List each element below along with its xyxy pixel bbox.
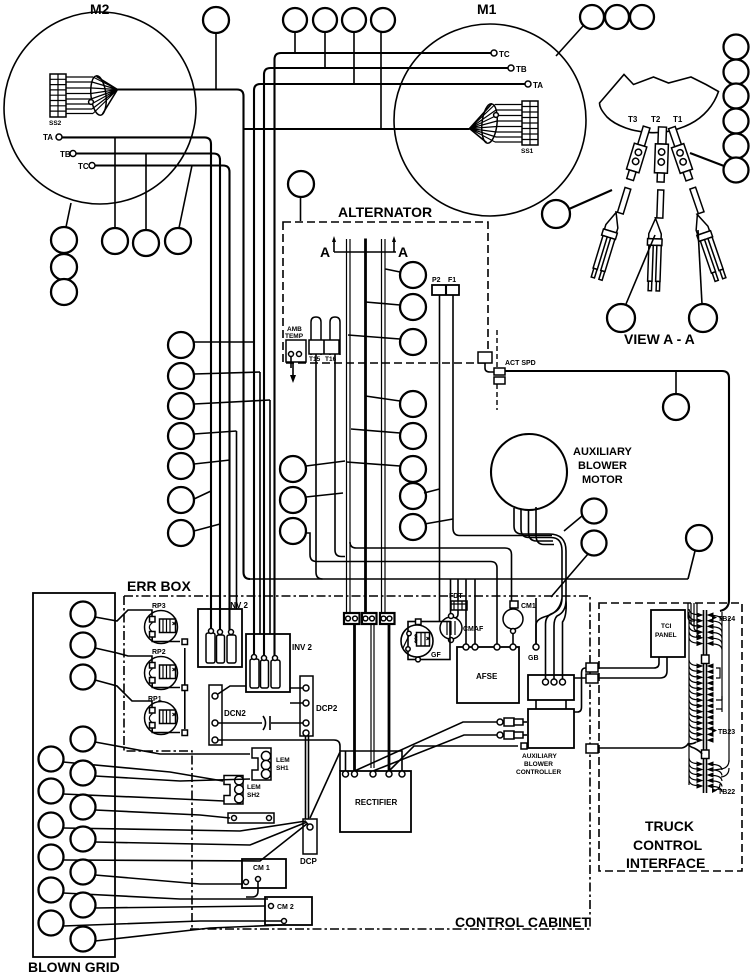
- right column callout circles: [724, 35, 749, 60]
- svg-text:TB24: TB24: [718, 616, 735, 623]
- LEM SH1: [252, 748, 290, 780]
- svg-text:T2: T2: [651, 115, 661, 124]
- wire stem: [675, 371, 677, 394]
- connector SS1: [470, 101, 539, 155]
- relay GF: [401, 619, 450, 662]
- terminal strip DCP2: [300, 676, 338, 736]
- right callout column x=413: [347, 262, 454, 540]
- wire drop TC diagonal: [179, 166, 192, 229]
- svg-text:TB: TB: [516, 65, 527, 74]
- svg-text:CONTROL CABINET: CONTROL CABINET: [455, 914, 591, 930]
- node TB (M2): [60, 150, 76, 159]
- plug P2: [497, 731, 527, 739]
- strip divider boxes: [702, 655, 710, 664]
- terminal strip DCN2: [209, 685, 246, 745]
- svg-text:DCP: DCP: [300, 857, 318, 866]
- terminal hooks TB22: [689, 758, 722, 792]
- wire DCN2 top link: [218, 686, 246, 694]
- TRUCK CONTROL INTERFACE box: [599, 603, 742, 871]
- callout circle top (215,20): [203, 7, 229, 33]
- svg-text:T1: T1: [673, 115, 683, 124]
- wire rect t2 to plug1: [355, 722, 499, 771]
- M2 bottom-left callout circles: [51, 227, 77, 253]
- thin pair to rectifier: [371, 624, 374, 768]
- TCI PANEL: [651, 610, 685, 657]
- box CM 2: [265, 897, 312, 925]
- svg-text:RP2: RP2: [152, 649, 166, 656]
- svg-text:DCN2: DCN2: [224, 709, 246, 718]
- motor M2 circle: [4, 1, 196, 204]
- wire stem: [551, 554, 588, 597]
- svg-text:TB22: TB22: [718, 789, 735, 796]
- wire TA-M2: [62, 137, 211, 630]
- AMB TEMP sensor: [285, 326, 306, 383]
- connector SS2: [49, 74, 118, 127]
- wire TB-M2: [76, 154, 220, 631]
- wire TC-M1: [275, 53, 492, 656]
- svg-text:VIEW A - A: VIEW A - A: [624, 331, 695, 347]
- capacitor: [218, 716, 303, 730]
- svg-text:T3: T3: [628, 115, 638, 124]
- svg-text:BLOWN GRID: BLOWN GRID: [28, 959, 120, 975]
- blown grid circles left column: [39, 747, 64, 936]
- terminal block 3: [380, 613, 395, 624]
- svg-text:SS1: SS1: [521, 148, 534, 155]
- svg-text:BLOWER: BLOWER: [578, 460, 627, 472]
- drop circle (181,241): [165, 228, 191, 254]
- auxiliary blower motor: [491, 434, 633, 679]
- svg-text:ALTERNATOR: ALTERNATOR: [338, 204, 432, 220]
- svg-text:PANEL: PANEL: [655, 632, 677, 639]
- BLOWN GRID box: [28, 593, 120, 975]
- svg-text:GB: GB: [528, 655, 539, 662]
- inverter INV2 right: [246, 634, 313, 692]
- terminals T15 T16: [309, 317, 345, 579]
- wire stem: [215, 33, 217, 90]
- svg-text:RP3: RP3: [152, 603, 166, 610]
- svg-text:MOTOR: MOTOR: [582, 474, 623, 486]
- resistor RP3: [145, 603, 181, 644]
- node TB (M1): [508, 65, 527, 74]
- wire stem to alternator box: [300, 197, 302, 221]
- wire DCP to rectifier: [310, 752, 340, 818]
- svg-text:SS2: SS2: [49, 120, 62, 127]
- svg-text:TCI: TCI: [661, 623, 672, 630]
- cable T3: [589, 124, 652, 282]
- svg-text:TC: TC: [499, 50, 510, 59]
- resistor RP2: [145, 649, 181, 690]
- svg-text:TA: TA: [533, 81, 543, 90]
- svg-text:CM 2: CM 2: [277, 904, 294, 911]
- callout circle left of cables: [542, 200, 570, 228]
- svg-text:T15: T15: [309, 356, 321, 363]
- motor M1 circle: [394, 1, 586, 216]
- callout circle bottom right: [689, 304, 717, 332]
- wire: [626, 235, 655, 304]
- thin pair 3: [382, 239, 386, 616]
- node TC (M1): [491, 50, 510, 59]
- svg-text:AFSE: AFSE: [476, 672, 498, 681]
- callout circles top right: [580, 5, 604, 29]
- svg-text:CONTROL: CONTROL: [633, 837, 703, 853]
- resistor RP1: [145, 696, 181, 735]
- wire rect t3 to plug2: [373, 735, 498, 771]
- svg-text:ERR BOX: ERR BOX: [127, 578, 191, 594]
- svg-text:M1: M1: [477, 1, 497, 17]
- wire M1 to callout: [556, 26, 583, 56]
- callout circle mid right: [663, 394, 689, 420]
- callout circle right of motor lower: [582, 531, 607, 556]
- node TC (M2): [78, 162, 95, 171]
- wire TB-M1: [264, 68, 508, 656]
- svg-text:TEMP: TEMP: [285, 333, 304, 340]
- wire TC-M2: [95, 166, 230, 631]
- svg-text:M2: M2: [90, 1, 110, 17]
- node TA (M2): [43, 133, 62, 142]
- svg-text:AUXILIARY: AUXILIARY: [522, 753, 557, 760]
- label TB22: [712, 788, 735, 796]
- fuse P2 F1: [432, 277, 552, 622]
- aux blower controller: [516, 709, 574, 776]
- svg-text:CONTROLLER: CONTROLLER: [516, 769, 561, 776]
- callout circle above alternator: [288, 171, 314, 197]
- wire abc to TCI: [574, 668, 586, 712]
- contactor CMAF: [440, 614, 484, 643]
- wire DCP2 top link: [290, 688, 303, 703]
- contactor CM1: [350, 542, 536, 647]
- cable T1: [661, 126, 729, 283]
- wire rect t4 to controller: [389, 746, 518, 771]
- wire stem: [564, 516, 582, 531]
- svg-text:CM 1: CM 1: [253, 865, 270, 872]
- wire rect terminal U-link: [340, 751, 402, 771]
- wire TCI bundle verticals: [689, 612, 722, 785]
- wire AFSE drops: [466, 579, 475, 644]
- LEM SH2: [224, 776, 261, 805]
- drop circle (146,243): [133, 230, 159, 256]
- label TB23: [712, 728, 735, 736]
- svg-text:TC: TC: [78, 162, 89, 171]
- DCP bus: [300, 736, 318, 866]
- svg-text:TRUCK: TRUCK: [645, 818, 694, 834]
- svg-text:AUXILIARY: AUXILIARY: [573, 446, 633, 458]
- VIEW A-A fan shape: [600, 75, 719, 133]
- wires into TB24 top: [688, 603, 729, 762]
- svg-text:TB: TB: [60, 150, 71, 159]
- terminal block 2: [362, 613, 377, 624]
- thick wires to rectifier: [355, 624, 390, 771]
- ERR BOX: [127, 578, 191, 594]
- TCI terminal strip: [704, 610, 707, 793]
- fuse FDT: [449, 579, 467, 620]
- svg-text:SH1: SH1: [276, 765, 289, 772]
- wire TA-M1: [254, 84, 525, 656]
- svg-text:A: A: [320, 244, 330, 260]
- wire into TB22 fork: [598, 742, 702, 754]
- wire SS2 to bundle: [118, 90, 251, 580]
- wire ACT SPD to TB24: [505, 371, 729, 611]
- wire TCI panel to pass-through: [598, 657, 667, 678]
- svg-text:ACT SPD: ACT SPD: [505, 360, 536, 367]
- svg-text:INV 2: INV 2: [292, 643, 313, 652]
- thick wire 2: [364, 239, 367, 618]
- inverter INV2 left: [198, 601, 249, 667]
- svg-text:LEM: LEM: [276, 757, 290, 764]
- wire: [698, 230, 702, 304]
- wire stem: [688, 551, 695, 579]
- svg-text:DCP2: DCP2: [316, 704, 338, 713]
- wire T1 to circle: [690, 153, 724, 166]
- section mark A-A: [320, 236, 408, 260]
- callout circle lower right: [686, 525, 712, 551]
- CONTROL CABINET dashed box: [124, 596, 591, 930]
- wire to SS1: [244, 128, 470, 130]
- wires into TB22 bottom: [714, 760, 729, 790]
- terminal block 1: [344, 613, 360, 624]
- boxes CM 1: [242, 859, 286, 897]
- wire run y=579: [250, 578, 688, 580]
- pass-through blocks: [586, 663, 598, 753]
- svg-text:P2: P2: [432, 277, 441, 284]
- bus strip: [228, 813, 274, 823]
- middle callout column x=293: [280, 456, 497, 644]
- svg-text:CM1: CM1: [521, 603, 536, 610]
- blown grid circles right column: [71, 602, 96, 952]
- svg-text:LEM: LEM: [247, 784, 261, 791]
- callout circles top center: [283, 8, 307, 32]
- svg-text:INTERFACE: INTERFACE: [626, 855, 705, 871]
- svg-text:AMB: AMB: [287, 326, 302, 333]
- wire DCN2 to rectifier: [218, 740, 340, 751]
- wire drop TA: [114, 137, 116, 228]
- callout circle right of motor: [582, 499, 607, 524]
- svg-text:TB23: TB23: [718, 729, 735, 736]
- wire from M2 edge: [66, 203, 71, 227]
- wire drop TB: [145, 154, 147, 231]
- node GB: [528, 598, 539, 662]
- connector ACT SPD: [478, 330, 536, 410]
- label TB24: [712, 615, 735, 623]
- node TA (M1): [525, 81, 543, 90]
- svg-text:F1: F1: [448, 277, 456, 284]
- svg-text:SH2: SH2: [247, 792, 260, 799]
- terminal hooks TB23: [689, 660, 714, 743]
- wire CMAF riser: [450, 579, 452, 613]
- plug P1: [497, 718, 527, 726]
- svg-text:RECTIFIER: RECTIFIER: [355, 798, 397, 807]
- terminal hooks TB24: [689, 609, 722, 650]
- AFSE box: [457, 644, 519, 703]
- rectifier: [340, 771, 411, 832]
- wires into TB23 right: [716, 668, 722, 712]
- left callout column x=181: [168, 332, 270, 634]
- aux blower relay: [528, 675, 574, 709]
- drop circle (116,241): [102, 228, 128, 254]
- alternator output wires: thin pair 1: [347, 239, 351, 616]
- ALTERNATOR dashed box: [283, 204, 488, 363]
- wire RP chain: [184, 648, 186, 729]
- wire extra verticals from stems: [237, 372, 271, 634]
- callout circle bottom left: [607, 304, 635, 332]
- svg-text:BLOWER: BLOWER: [524, 761, 553, 768]
- svg-text:A: A: [398, 244, 408, 260]
- junction fan wires from blown grid: [63, 610, 308, 941]
- wire stems: [295, 32, 381, 129]
- svg-text:GF: GF: [431, 652, 441, 659]
- svg-text:TA: TA: [43, 133, 53, 142]
- cable T2: [646, 127, 669, 292]
- wire: [569, 190, 612, 209]
